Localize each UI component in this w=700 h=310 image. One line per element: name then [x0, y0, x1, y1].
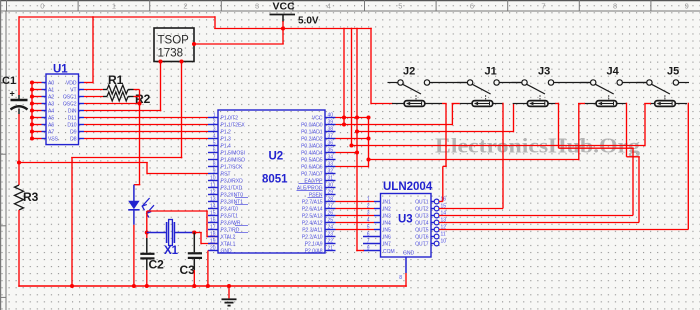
wire TSOP pin2 to ground run — [181, 62, 183, 159]
svg-text:3: 3 — [213, 127, 216, 133]
wire VCC top rail right — [214, 28, 372, 30]
svg-text:P2.3/A11: P2.3/A11 — [302, 228, 322, 234]
svg-text:6: 6 — [367, 232, 370, 238]
svg-text:A1: A1 — [48, 88, 54, 94]
wire J2 coil feed from VCC — [371, 103, 393, 105]
resistor R1 — [103, 89, 107, 91]
svg-text:8051: 8051 — [262, 174, 288, 186]
svg-text:D11: D11 — [68, 116, 77, 122]
svg-text:2: 2 — [367, 204, 370, 210]
pin U2 13 / 28 — [208, 201, 218, 203]
pin U2 8 / 33 — [208, 166, 218, 168]
svg-text:OSC2: OSC2 — [63, 102, 77, 108]
capacitor C2 — [146, 238, 148, 253]
wire VCC to TSOP output node — [282, 21, 284, 44]
wire J3 coil to OUT3 — [548, 103, 556, 105]
svg-text:5: 5 — [398, 2, 402, 11]
svg-text:31: 31 — [328, 176, 334, 182]
svg-text:D9: D9 — [70, 130, 77, 136]
capacitor C1 — [18, 95, 20, 99]
pin U3 IN3/OUT3 — [374, 215, 381, 217]
svg-text:P2.7/A15: P2.7/A15 — [302, 200, 323, 206]
wire U1 pin A3 — [32, 103, 42, 105]
svg-text:COM: COM — [383, 249, 395, 255]
pin U3 IN5/OUT5 — [374, 229, 381, 231]
svg-text:X1: X1 — [164, 245, 179, 257]
svg-text:VSS: VSS — [48, 137, 59, 143]
crystal X1 — [147, 232, 167, 234]
svg-text:IN5: IN5 — [383, 228, 391, 234]
wire U1 D11-D8 to U2 P1.0-P1.3 — [84, 117, 208, 119]
svg-text:P0.1/AD1: P0.1/AD1 — [301, 130, 323, 136]
svg-text:A6: A6 — [48, 123, 54, 129]
pin U2 15 / 26 — [208, 215, 218, 217]
wire LED cathode to ground rail — [133, 225, 135, 286]
LED arrows — [142, 198, 154, 218]
svg-text:20: 20 — [210, 246, 216, 252]
svg-text:GND: GND — [403, 251, 415, 257]
svg-text:A5: A5 — [48, 116, 54, 122]
svg-text:22: 22 — [328, 239, 334, 245]
svg-text:IN7: IN7 — [383, 242, 391, 248]
pin U2 17 / 24 — [208, 229, 218, 231]
svg-text:0: 0 — [40, 2, 44, 11]
svg-text:P1.4: P1.4 — [221, 144, 232, 150]
pin U2 20 / 21 — [208, 250, 218, 252]
svg-text:29: 29 — [328, 190, 334, 196]
svg-text:J5: J5 — [667, 66, 679, 78]
svg-text:5.0V: 5.0V — [298, 16, 319, 27]
svg-text:4: 4 — [213, 134, 216, 140]
svg-text:R3: R3 — [23, 190, 39, 204]
pin U3 IN4/OUT4 — [374, 222, 381, 224]
svg-text:OSC1: OSC1 — [63, 95, 77, 101]
wire U2 VCC pin40 row — [336, 117, 369, 119]
pin U3 IN6/OUT6 — [363, 236, 381, 238]
svg-text:8: 8 — [213, 162, 216, 168]
svg-text:18: 18 — [210, 232, 216, 238]
pin U2 4 / 37 — [208, 138, 218, 140]
wire VCC rail step — [214, 16, 216, 28]
wire U1 VDD to VCC rail — [84, 82, 93, 84]
wire U2 P2 rows to U3 inputs — [336, 201, 375, 203]
pin U2 5 / 36 — [208, 145, 218, 147]
svg-text:VT: VT — [70, 88, 76, 94]
svg-text:14: 14 — [210, 204, 216, 210]
svg-text:J4: J4 — [607, 66, 620, 78]
ground — [228, 286, 230, 298]
wire P0.0 row to J1 coil — [336, 124, 453, 126]
svg-text:J2: J2 — [403, 66, 415, 78]
svg-text:P3.5/T1: P3.5/T1 — [221, 214, 239, 220]
svg-text:13: 13 — [210, 197, 216, 203]
svg-text:J3: J3 — [538, 66, 550, 78]
wire U1 VT to R1 — [84, 89, 103, 91]
wire row to J4 coil — [369, 159, 579, 161]
svg-text:17: 17 — [210, 225, 216, 231]
svg-text:35: 35 — [328, 148, 334, 154]
wire XTAL1 run — [192, 230, 196, 234]
svg-text:1: 1 — [367, 197, 370, 203]
svg-text:23: 23 — [328, 232, 334, 238]
svg-text:25: 25 — [328, 218, 334, 224]
svg-text:OUT2: OUT2 — [415, 207, 429, 213]
pin U3 COM — [363, 250, 381, 252]
svg-text:+: + — [10, 89, 15, 99]
svg-text:P2.6/A14: P2.6/A14 — [302, 207, 323, 213]
pin U3 IN1/OUT1 — [374, 201, 381, 203]
svg-text:VDD: VDD — [66, 81, 77, 87]
svg-text:28: 28 — [328, 197, 334, 203]
svg-text:P1.2: P1.2 — [221, 130, 232, 136]
svg-text:OUT7: OUT7 — [415, 242, 429, 248]
svg-text:C3: C3 — [180, 263, 196, 277]
svg-text:P2.1/A9: P2.1/A9 — [305, 242, 323, 248]
wire crystal left column — [146, 211, 148, 238]
svg-text:P1.5/MOSI: P1.5/MOSI — [221, 151, 245, 157]
svg-text:A4: A4 — [48, 109, 54, 115]
svg-text:16: 16 — [210, 218, 216, 224]
svg-text:U3: U3 — [398, 214, 413, 226]
wire U3 COM to VCC bus — [356, 250, 364, 252]
wire U2 GND to rail — [207, 251, 209, 287]
wire R2 node down to LED — [139, 97, 141, 185]
wire U1 pin VSS — [32, 138, 42, 140]
pin U2 12 / 29 — [208, 194, 218, 196]
pin U2 14 / 27 — [208, 208, 218, 210]
wire left supply bus upper — [18, 16, 20, 95]
svg-text:IN6: IN6 — [383, 235, 391, 241]
svg-text:P2.0/A8: P2.0/A8 — [305, 249, 323, 255]
wire U1 pin A2 — [32, 96, 42, 98]
svg-text:P0.3/AD3: P0.3/AD3 — [301, 144, 323, 150]
svg-text:7: 7 — [367, 239, 370, 245]
wire left bus middle — [18, 114, 20, 185]
svg-text:26: 26 — [328, 211, 334, 217]
svg-text:D8: D8 — [70, 137, 77, 143]
svg-text:OUT5: OUT5 — [415, 228, 429, 234]
pin U2 6 / 35 — [208, 152, 218, 154]
svg-text:4: 4 — [367, 218, 370, 224]
svg-text:5: 5 — [213, 141, 216, 147]
svg-text:P3.1/TXD: P3.1/TXD — [221, 186, 243, 192]
svg-text:P1.3: P1.3 — [221, 137, 232, 143]
pin U2 3 / 38 — [208, 131, 218, 133]
wire U1 pin A5 — [32, 117, 42, 119]
svg-text:P1.6/MISO: P1.6/MISO — [221, 158, 246, 164]
node U1 address bus — [31, 83, 33, 139]
svg-text:A7: A7 — [48, 130, 54, 136]
svg-text:P0.0/AD0: P0.0/AD0 — [301, 123, 323, 129]
wire U1 OSC2 join — [84, 103, 140, 105]
wire J5 coil left — [650, 103, 655, 105]
svg-text:U2: U2 — [269, 151, 284, 163]
svg-text:P0.2/AD2: P0.2/AD2 — [301, 137, 323, 143]
svg-text:R1: R1 — [108, 73, 124, 87]
svg-text:8: 8 — [613, 2, 617, 11]
pin U2 1 / 40 — [208, 117, 218, 119]
svg-text:IN4: IN4 — [383, 221, 391, 227]
svg-text:P1.0/T2: P1.0/T2 — [221, 116, 239, 122]
capacitor C3 — [193, 233, 195, 253]
svg-text:A3: A3 — [48, 102, 54, 108]
svg-text:P1.7/SCK: P1.7/SCK — [221, 165, 244, 171]
IC U1 (HT12D decoder) — [46, 74, 79, 145]
wire P0.1 row to J3 coil — [357, 131, 514, 133]
svg-text:RST: RST — [221, 172, 231, 178]
svg-text:37: 37 — [328, 134, 334, 140]
svg-text:21: 21 — [328, 246, 334, 252]
wire P0.6 row — [336, 166, 369, 168]
wire VCC buses right of U2 — [343, 28, 345, 126]
svg-text:IN1: IN1 — [383, 200, 391, 206]
svg-text:P2.2/A10: P2.2/A10 — [302, 235, 323, 241]
svg-text:P3.4/T0: P3.4/T0 — [221, 207, 239, 213]
svg-text:C1: C1 — [2, 75, 16, 87]
svg-text:39: 39 — [328, 120, 334, 126]
svg-text:GND: GND — [221, 249, 233, 255]
svg-text:OUT3: OUT3 — [415, 214, 429, 220]
svg-text:9: 9 — [367, 246, 370, 252]
wire J3 coil left — [513, 103, 528, 105]
svg-text:12: 12 — [210, 190, 216, 196]
pin U3 IN7/OUT7 — [363, 243, 381, 245]
svg-text:34: 34 — [328, 155, 334, 161]
svg-text:P3.0/RXD: P3.0/RXD — [221, 179, 244, 185]
wire R1-R2 series link — [134, 89, 140, 91]
svg-text:IN3: IN3 — [383, 214, 391, 220]
svg-text:P0.6/AD6: P0.6/AD6 — [301, 165, 323, 171]
wire relay contact row — [430, 82, 468, 84]
svg-text:9: 9 — [685, 2, 689, 11]
driver U3 ULN2004 — [381, 194, 432, 258]
svg-text:VCC: VCC — [273, 1, 296, 13]
resistor R2 — [103, 96, 107, 98]
svg-text:P2.5/A13: P2.5/A13 — [302, 214, 323, 220]
svg-text:1: 1 — [112, 2, 116, 11]
svg-text:XTAL2: XTAL2 — [221, 235, 236, 241]
IR receiver TSOP 1738 — [154, 28, 194, 62]
power flag VCC — [270, 14, 296, 16]
svg-text:11: 11 — [210, 183, 215, 189]
svg-text:OUT4: OUT4 — [415, 221, 429, 227]
svg-text:D10: D10 — [67, 123, 76, 129]
svg-text:36: 36 — [328, 141, 334, 147]
svg-text:32: 32 — [328, 169, 334, 175]
wire XTAL2 run — [147, 210, 208, 212]
svg-text:2: 2 — [183, 2, 187, 11]
pin U2 11 / 30 — [208, 187, 218, 189]
svg-text:15: 15 — [210, 211, 216, 217]
svg-text:8: 8 — [399, 275, 402, 281]
svg-text:XTAL1: XTAL1 — [221, 242, 236, 248]
wire row to J5 coil — [352, 145, 646, 147]
svg-text:27: 27 — [328, 204, 334, 210]
svg-text:9: 9 — [213, 169, 216, 175]
wire U1 pin A4 — [32, 110, 42, 112]
svg-text:3: 3 — [255, 2, 259, 11]
svg-text:P0.5/AD5: P0.5/AD5 — [301, 158, 323, 164]
svg-text:5: 5 — [367, 225, 370, 231]
svg-text:U1: U1 — [53, 64, 68, 76]
svg-text:P1.1/T2EX: P1.1/T2EX — [221, 123, 246, 129]
wire J1 coil left — [460, 103, 472, 105]
pin U2 10 / 31 — [208, 180, 218, 182]
svg-text:P0.4/AD4: P0.4/AD4 — [301, 151, 323, 157]
svg-text:ULN2004: ULN2004 — [383, 181, 433, 193]
wire U1 pin A1 — [32, 89, 42, 91]
pin U2 16 / 25 — [208, 222, 218, 224]
svg-text:24: 24 — [328, 225, 334, 231]
svg-text:A2: A2 — [48, 95, 54, 101]
svg-text:IN2: IN2 — [383, 207, 391, 213]
svg-text:11: 11 — [441, 232, 446, 238]
svg-text:7: 7 — [541, 2, 545, 11]
resistor R3 — [15, 185, 24, 210]
svg-text:33: 33 — [328, 162, 334, 168]
svg-text:P2.4/A12: P2.4/A12 — [302, 221, 323, 227]
svg-text:10: 10 — [210, 176, 216, 182]
svg-text:J1: J1 — [485, 66, 497, 78]
wire TSOP pin1 to U1 DIN — [160, 62, 162, 112]
svg-text:DIN: DIN — [68, 109, 77, 115]
svg-text:TSOP: TSOP — [158, 35, 190, 47]
svg-text:OUT6: OUT6 — [415, 235, 429, 241]
svg-text:10: 10 — [441, 239, 447, 245]
wire U1 pin A6 — [32, 124, 42, 126]
svg-text:VCC: VCC — [312, 116, 323, 122]
pin U2 9 / 32 — [208, 173, 218, 175]
wire U1 pin A7 — [32, 131, 42, 133]
wire supply row to RST — [19, 162, 148, 164]
wire P0.2 row — [336, 138, 369, 140]
wire P0.4 row — [336, 152, 358, 154]
wire J1 coil to OUT2 — [493, 103, 503, 105]
svg-text:30: 30 — [328, 183, 334, 189]
wire J4 coil to OUT4 — [617, 103, 627, 105]
svg-text:3: 3 — [367, 211, 370, 217]
wire bottom ground rail — [18, 285, 407, 287]
svg-text:38: 38 — [328, 127, 334, 133]
svg-text:1: 1 — [213, 113, 216, 119]
wire U1 OSC1 to R2 — [84, 96, 103, 98]
pin U2 18 / 23 — [208, 236, 218, 238]
svg-text:6: 6 — [470, 2, 474, 11]
wire J2 coil to OUT1 — [425, 103, 442, 105]
wire J5 coil to OUT5 — [675, 103, 687, 105]
svg-text:7: 7 — [213, 155, 216, 161]
svg-text:40: 40 — [328, 113, 334, 119]
wire VCC top rail left — [19, 16, 215, 18]
pin U2 2 / 39 — [208, 124, 218, 126]
svg-text:OUT1: OUT1 — [415, 200, 429, 206]
svg-text:P0.7/AD7: P0.7/AD7 — [301, 172, 323, 178]
microcontroller U2 8051 — [218, 110, 325, 253]
svg-text:1738: 1738 — [158, 48, 184, 60]
svg-text:19: 19 — [210, 239, 216, 245]
pin U2 7 / 34 — [208, 159, 218, 161]
svg-text:4: 4 — [327, 2, 331, 11]
svg-text:2: 2 — [213, 120, 216, 126]
svg-text:C2: C2 — [149, 258, 165, 272]
svg-text:A0: A0 — [48, 81, 54, 87]
pin U3 IN2/OUT2 — [374, 208, 381, 210]
wire U1 pin A0 — [32, 82, 42, 84]
wire U3 GND to rail — [405, 273, 407, 287]
LED D1 — [133, 185, 135, 201]
wire left bus lower — [18, 210, 20, 287]
wire J4 coil left — [584, 103, 596, 105]
svg-text:6: 6 — [213, 148, 216, 154]
pin U2 19 / 22 — [208, 243, 218, 245]
